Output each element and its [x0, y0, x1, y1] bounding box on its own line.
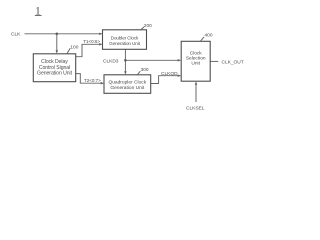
svg-text:Doubler Clock: Doubler Clock: [111, 35, 139, 40]
svg-text:CLK_OUT: CLK_OUT: [222, 60, 244, 66]
svg-text:100: 100: [70, 44, 78, 50]
junction on CLK wire: [56, 33, 59, 36]
wire CLKQD from quadrupler to selection unit: [151, 76, 179, 84]
block clock delay control signal generation unit 100: [33, 54, 75, 82]
ref tick and label 200: [141, 27, 144, 30]
wire CLK down to delay unit: [56, 34, 58, 52]
wire T2 from delay unit to quadrupler: [76, 74, 102, 84]
ref tick and label 300: [138, 71, 141, 74]
wire doubler output down to quadrupler: [124, 49, 126, 72]
wire CLK_OUT from selection unit: [210, 60, 218, 62]
block doubler clock generation unit 200: [103, 30, 147, 50]
wire CLKD3 to selection unit: [125, 59, 179, 61]
block quadrupler clock generation unit 300: [104, 75, 151, 94]
svg-text:Generation Unit: Generation Unit: [37, 70, 73, 76]
svg-text:400: 400: [205, 32, 213, 38]
ref tick and label 100: [67, 48, 70, 53]
ref tick and label 400: [201, 37, 205, 41]
wire CLK to doubler: [25, 33, 101, 35]
svg-text:T1<0:6>: T1<0:6>: [83, 39, 100, 44]
junction on CLKD3 node: [124, 59, 127, 62]
svg-text:200: 200: [144, 23, 152, 29]
svg-text:Unit: Unit: [191, 61, 200, 67]
svg-text:T2<0:7>: T2<0:7>: [84, 78, 101, 83]
wire CLKSEL up into selection unit: [195, 83, 197, 102]
svg-text:CLKSEL: CLKSEL: [186, 106, 205, 112]
svg-text:300: 300: [141, 67, 149, 73]
svg-text:CLKD3: CLKD3: [103, 58, 119, 64]
svg-text:CLK: CLK: [11, 31, 21, 37]
svg-text:Quadrupler Clock: Quadrupler Clock: [108, 80, 146, 86]
svg-text:CLKQD: CLKQD: [161, 71, 178, 77]
wire T1 from delay unit to doubler: [76, 44, 101, 56]
block clock selection unit 400: [181, 41, 210, 81]
svg-text:Generation Unit: Generation Unit: [109, 41, 140, 46]
svg-text:Generation Unit: Generation Unit: [110, 85, 145, 91]
